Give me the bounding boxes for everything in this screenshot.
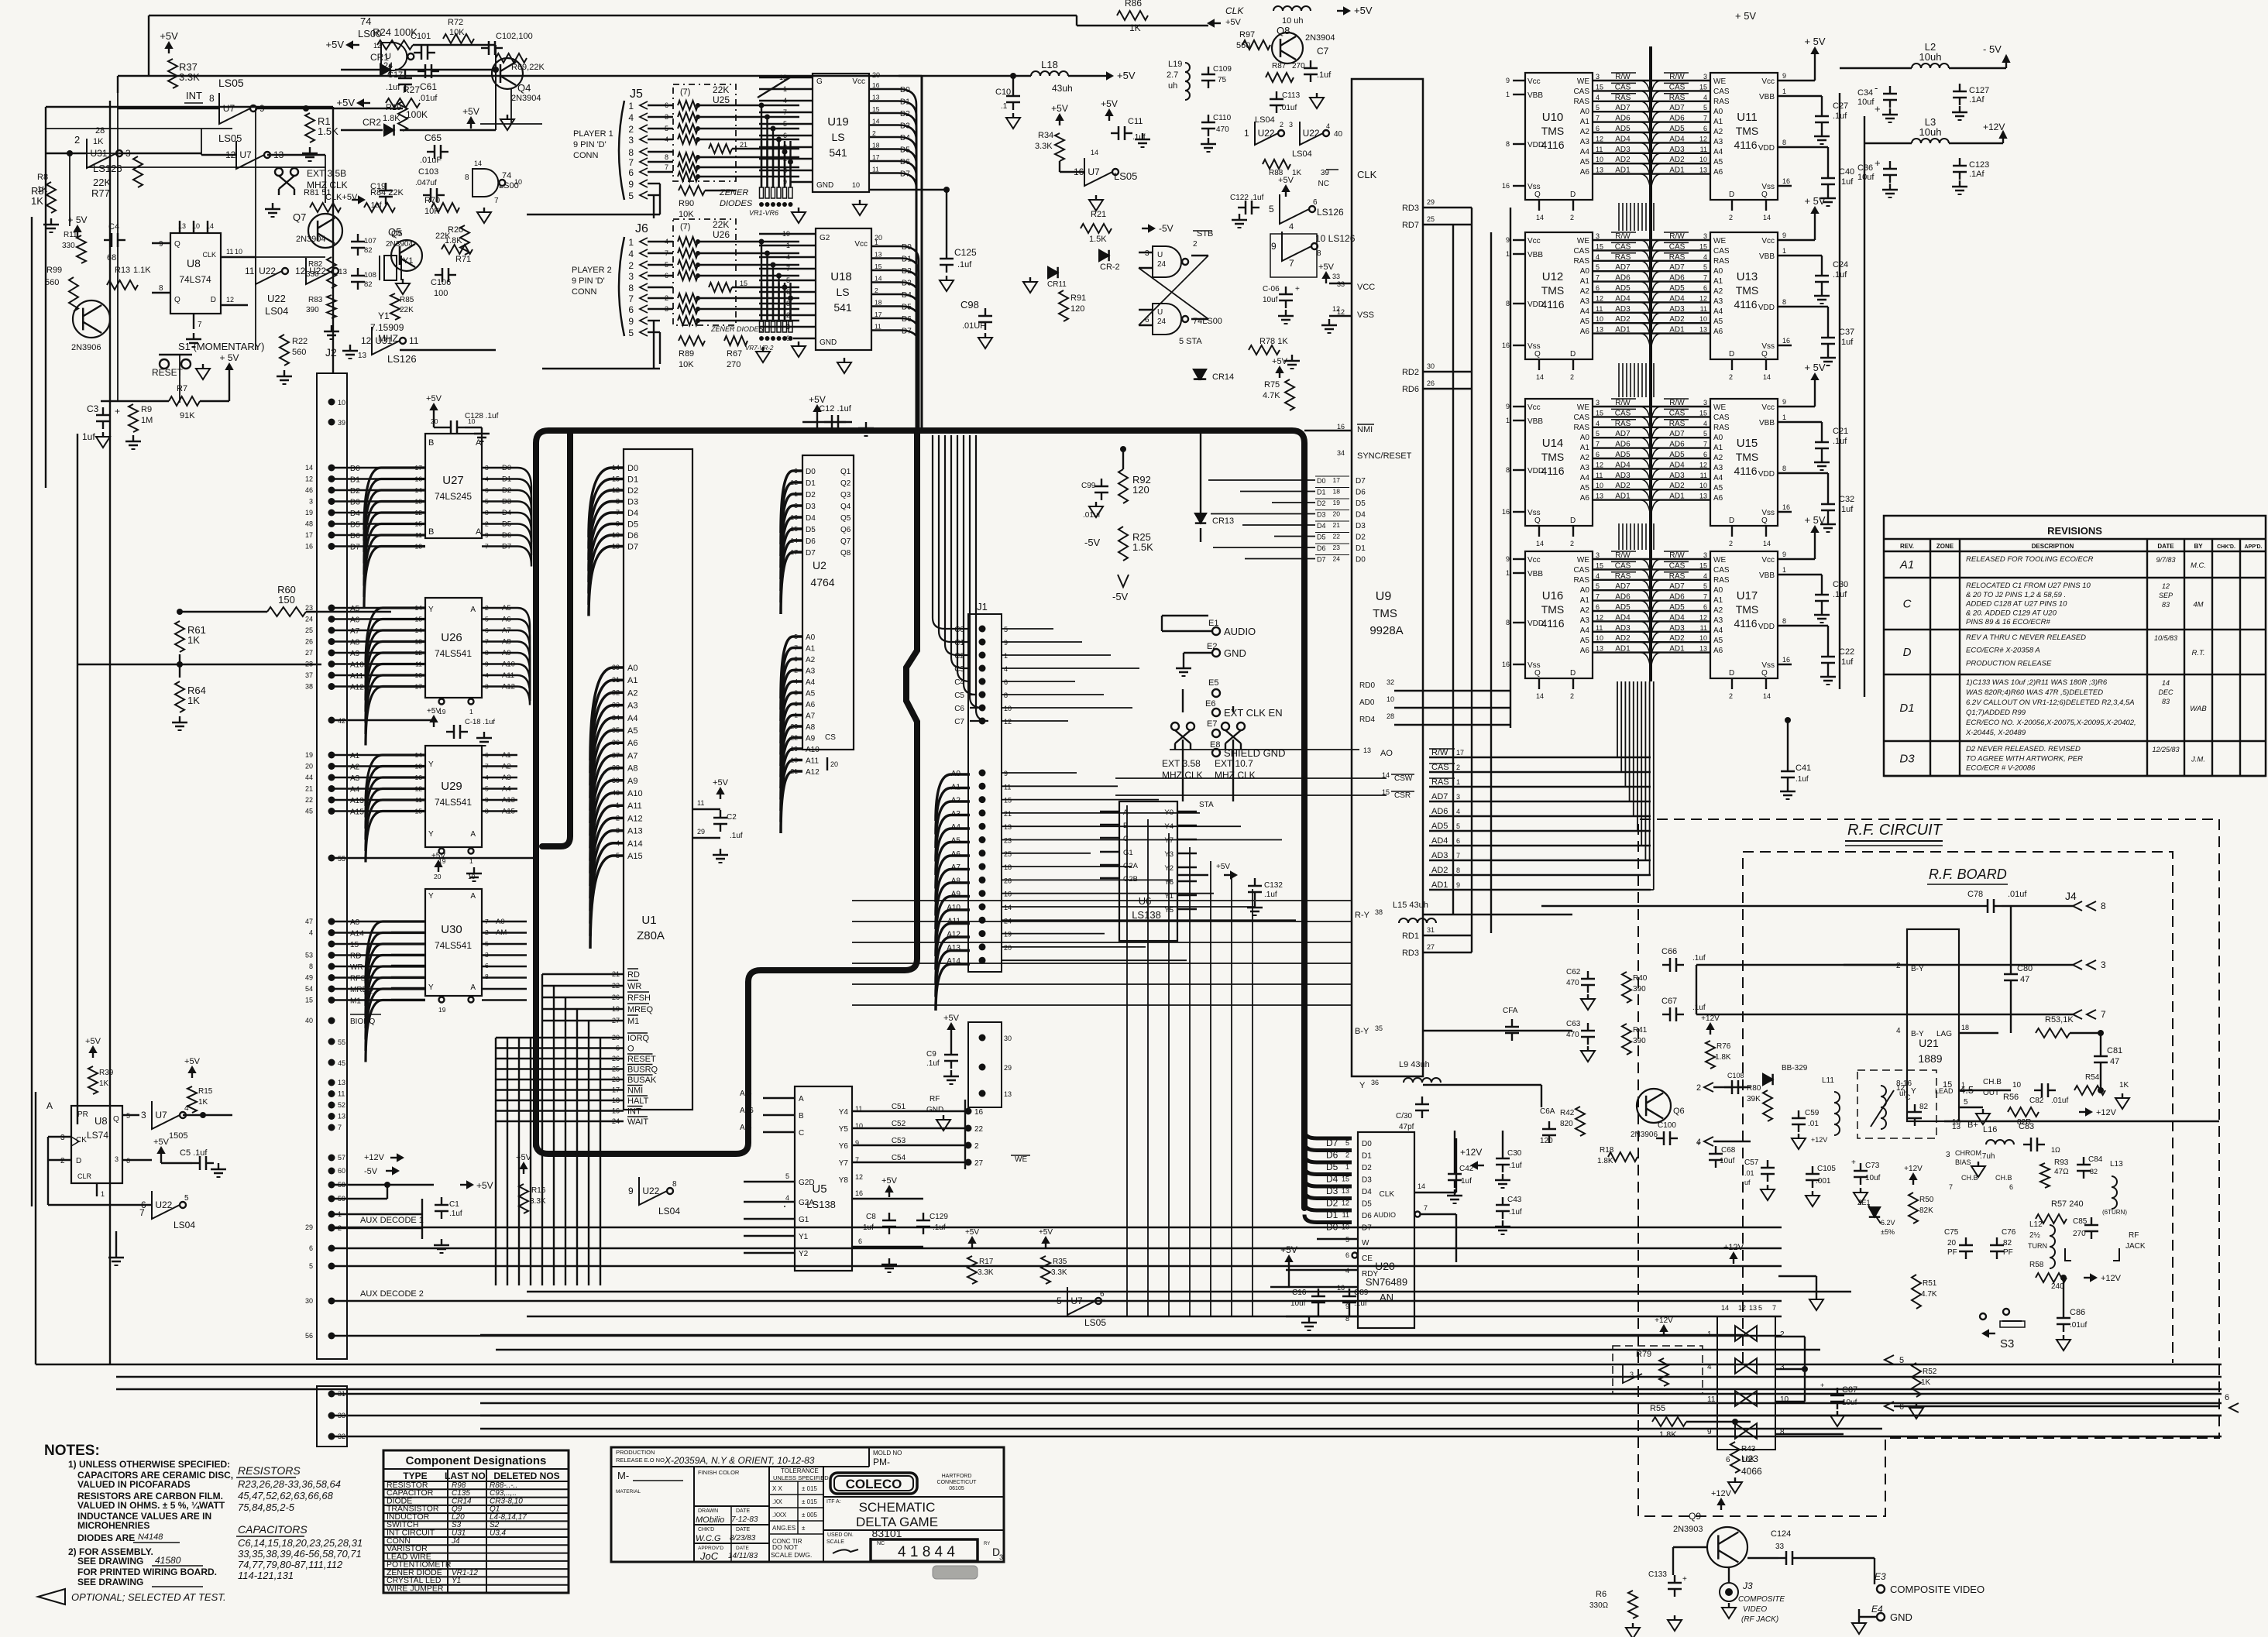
svg-text:C108: C108 [1727, 1072, 1744, 1079]
svg-text:10K: 10K [1741, 1456, 1755, 1464]
svg-text:C67: C67 [1661, 997, 1677, 1006]
svg-text:16: 16 [855, 1189, 863, 1197]
svg-text:56: 56 [305, 1332, 313, 1340]
svg-text:14: 14 [1721, 1304, 1729, 1312]
svg-text:U22: U22 [1258, 128, 1275, 139]
svg-text:13: 13 [358, 352, 367, 360]
svg-text:7: 7 [139, 1207, 145, 1218]
svg-text:14: 14 [1536, 692, 1544, 700]
svg-text:36: 36 [612, 739, 620, 746]
svg-text:14: 14 [872, 118, 880, 125]
svg-text:Q6: Q6 [1673, 1107, 1685, 1116]
svg-text:24: 24 [383, 61, 393, 70]
svg-text:-5V: -5V [1084, 537, 1101, 548]
svg-text:Q5: Q5 [391, 229, 403, 239]
svg-text:R86: R86 [1125, 0, 1142, 9]
svg-text:A1: A1 [627, 676, 637, 685]
svg-text:9: 9 [159, 240, 163, 249]
svg-text:1.5K: 1.5K [1132, 541, 1153, 553]
svg-text:AD3: AD3 [1669, 305, 1685, 314]
svg-text:Y7: Y7 [1164, 836, 1174, 845]
svg-text:120: 120 [1132, 484, 1149, 496]
svg-text:CLK: CLK [1225, 5, 1244, 16]
svg-text:D2: D2 [627, 486, 638, 496]
svg-text:3: 3 [1456, 793, 1460, 801]
svg-text:7: 7 [1596, 115, 1600, 122]
svg-text:LEAD: LEAD [1935, 1087, 1954, 1095]
svg-text:J4: J4 [451, 1537, 460, 1546]
svg-text:AD6: AD6 [1431, 807, 1448, 816]
svg-text:AD5: AD5 [1431, 822, 1448, 831]
svg-text:7: 7 [338, 1124, 342, 1131]
svg-text:Vcc: Vcc [852, 77, 865, 86]
svg-text:150: 150 [278, 594, 295, 606]
svg-text:D4: D4 [1356, 511, 1366, 520]
svg-text:10K: 10K [679, 210, 694, 219]
svg-text:4: 4 [665, 136, 668, 143]
svg-text:+12V: +12V [1904, 1165, 1923, 1173]
svg-text:14: 14 [1763, 692, 1771, 700]
svg-text:A6: A6 [350, 616, 360, 625]
svg-text:330: 330 [62, 242, 75, 250]
svg-text:A1: A1 [502, 751, 511, 760]
svg-text:D1: D1 [350, 476, 360, 485]
svg-text:8: 8 [1506, 140, 1510, 148]
svg-text:D4: D4 [1317, 522, 1326, 530]
svg-text:RD: RD [627, 970, 640, 980]
svg-text:U13: U13 [1737, 270, 1758, 283]
svg-text:RAS: RAS [1669, 572, 1686, 581]
svg-text:390: 390 [306, 306, 319, 314]
svg-text:17: 17 [1333, 476, 1341, 484]
svg-text:C63: C63 [1566, 1020, 1581, 1028]
svg-text:D0: D0 [1356, 556, 1366, 565]
svg-text:1: 1 [1506, 250, 1510, 258]
svg-text:A1: A1 [1713, 444, 1723, 452]
svg-text:.047uf: .047uf [415, 179, 437, 187]
svg-text:CSW: CSW [1394, 774, 1413, 783]
svg-text:AD3: AD3 [1615, 472, 1631, 480]
svg-text:4: 4 [794, 678, 798, 685]
svg-text:13: 13 [1699, 492, 1707, 500]
svg-text:6: 6 [628, 167, 634, 178]
svg-text:-5V: -5V [1112, 591, 1129, 602]
svg-text:AD7: AD7 [1615, 263, 1631, 272]
svg-text:2: 2 [974, 1142, 979, 1151]
svg-text:+ 5V: + 5V [1735, 10, 1756, 22]
svg-text:4: 4 [1703, 253, 1707, 261]
svg-text:A4: A4 [627, 714, 637, 723]
svg-text:AD4: AD4 [1431, 836, 1448, 846]
svg-text:1Ω: 1Ω [2051, 1146, 2060, 1154]
svg-text:C1: C1 [449, 1200, 459, 1209]
svg-text:270: 270 [727, 360, 741, 369]
svg-text:12: 12 [855, 1173, 863, 1181]
svg-text:18: 18 [1961, 1024, 1969, 1031]
svg-text:D: D [211, 296, 216, 304]
svg-text:RAS: RAS [1669, 420, 1686, 428]
svg-text:APP'D.: APP'D. [2244, 544, 2262, 550]
svg-text:45,47,52,62,63,66,68: 45,47,52,62,63,66,68 [238, 1490, 334, 1501]
svg-text:.1uf: .1uf [1839, 505, 1854, 514]
svg-text:D3: D3 [806, 503, 816, 511]
svg-text:+: + [1875, 103, 1881, 115]
svg-text:+5V: +5V [943, 1014, 960, 1023]
svg-text:C-18 .1uf: C-18 .1uf [465, 718, 495, 726]
svg-text:2: 2 [1729, 214, 1733, 221]
svg-text:CR-2: CR-2 [1100, 263, 1120, 272]
svg-text:A9: A9 [627, 777, 637, 786]
svg-text:R8: R8 [37, 173, 48, 182]
svg-text:PINS 89 & 16 ECO/ECR#: PINS 89 & 16 ECO/ECR# [1966, 618, 2050, 626]
svg-text:48: 48 [305, 520, 313, 528]
svg-text:LAST NO.: LAST NO. [445, 1471, 488, 1481]
svg-text:AD4: AD4 [1669, 135, 1685, 143]
svg-text:+12V: +12V [1655, 1316, 1673, 1325]
svg-text:15: 15 [1004, 797, 1012, 805]
svg-text:.1uf: .1uf [1839, 338, 1854, 347]
svg-text:DEC: DEC [2158, 688, 2173, 696]
svg-text:RESISTORS: RESISTORS [238, 1464, 301, 1477]
svg-text:11: 11 [338, 1090, 345, 1098]
svg-text:C5 .1uf: C5 .1uf [180, 1148, 208, 1158]
svg-text:U1: U1 [641, 914, 656, 927]
svg-text:5: 5 [665, 125, 668, 132]
svg-text:MHZ CLK: MHZ CLK [1215, 770, 1256, 781]
svg-text:J2: J2 [325, 346, 337, 359]
svg-text:+5V: +5V [1280, 1244, 1297, 1255]
svg-text:D5: D5 [1317, 534, 1326, 541]
svg-text:D3: D3 [350, 499, 360, 507]
svg-text:A1: A1 [1713, 596, 1723, 605]
svg-text:U7: U7 [1070, 1296, 1083, 1306]
svg-text:U15: U15 [1737, 437, 1758, 450]
svg-text:CLR: CLR [77, 1172, 92, 1180]
svg-text:VR1-VR6: VR1-VR6 [749, 209, 778, 217]
svg-text:D1: D1 [1362, 1152, 1372, 1161]
svg-text:8: 8 [672, 1180, 677, 1189]
svg-text:Y3: Y3 [1164, 850, 1174, 859]
svg-text:C127: C127 [1969, 86, 1989, 95]
svg-text:A15: A15 [502, 808, 515, 816]
svg-text:A3: A3 [1713, 616, 1723, 625]
svg-text:R41: R41 [1633, 1026, 1648, 1035]
svg-text:+12V: +12V [1701, 1014, 1720, 1023]
svg-text:C78: C78 [1967, 890, 1983, 899]
svg-text:4 1 8 4 4: 4 1 8 4 4 [898, 1544, 955, 1560]
svg-text:.1uf: .1uf [1509, 1162, 1522, 1170]
svg-text:.1uf: .1uf [730, 832, 743, 840]
svg-text:GND: GND [816, 181, 833, 190]
svg-text:G: G [816, 77, 823, 86]
svg-text:PLAYER 1: PLAYER 1 [573, 129, 613, 139]
svg-text:C5: C5 [954, 692, 964, 700]
svg-text:RD1: RD1 [1402, 932, 1419, 941]
svg-text:A3: A3 [1580, 464, 1590, 472]
svg-text:C85: C85 [2073, 1217, 2088, 1226]
svg-text:4.7K: 4.7K [1263, 391, 1280, 400]
svg-text:AD3: AD3 [1669, 146, 1685, 154]
svg-text:9: 9 [1782, 398, 1786, 406]
svg-text:36: 36 [1371, 1079, 1379, 1086]
svg-text:10uf: 10uf [1720, 1157, 1735, 1165]
svg-text:Y: Y [1359, 1081, 1366, 1090]
svg-text:AD7: AD7 [1669, 104, 1685, 112]
svg-text:A9: A9 [502, 649, 511, 657]
svg-text:Q: Q [113, 1115, 119, 1124]
svg-text:U30: U30 [441, 923, 462, 936]
svg-text:R52: R52 [1923, 1368, 1937, 1376]
svg-text:CAS: CAS [1669, 409, 1686, 417]
svg-text:13: 13 [1596, 645, 1603, 653]
svg-text:D: D [1570, 516, 1576, 525]
svg-text:(RF JACK): (RF JACK) [1741, 1615, 1778, 1624]
svg-text:D6: D6 [1362, 1212, 1372, 1220]
svg-text:SCALE: SCALE [826, 1539, 844, 1545]
svg-text:4: 4 [1707, 1363, 1712, 1371]
svg-text:J6: J6 [635, 222, 648, 235]
svg-text:6: 6 [1596, 603, 1600, 611]
svg-text:A: A [470, 830, 476, 839]
svg-text:41580: 41580 [155, 1555, 181, 1566]
svg-text:A11: A11 [806, 757, 819, 766]
svg-text:4: 4 [485, 671, 489, 679]
svg-text:LS04: LS04 [265, 305, 288, 317]
svg-text:82: 82 [364, 280, 373, 289]
svg-text:A2: A2 [1580, 454, 1590, 462]
svg-text:Y4: Y4 [1164, 822, 1174, 831]
svg-text:A5: A5 [1713, 484, 1723, 492]
svg-text:14: 14 [305, 464, 313, 472]
svg-text:& 20 TO J2 PINS 1,2 & 58,59 .: & 20 TO J2 PINS 1,2 & 58,59 . [1966, 591, 2066, 599]
svg-text:13: 13 [338, 1113, 345, 1121]
svg-text:PF: PF [2003, 1248, 2013, 1257]
svg-text:AUX DECODE 2: AUX DECODE 2 [360, 1289, 424, 1299]
svg-text:54: 54 [305, 985, 313, 993]
svg-text:R/W: R/W [1669, 551, 1685, 560]
svg-text:7: 7 [1703, 441, 1707, 448]
svg-text:D7: D7 [502, 543, 511, 551]
svg-text:120: 120 [1540, 1137, 1553, 1145]
svg-text:A6: A6 [1713, 494, 1723, 503]
svg-text:E1: E1 [1208, 619, 1218, 628]
svg-text:15: 15 [305, 997, 313, 1004]
svg-text:26: 26 [305, 638, 313, 646]
svg-text:3.3K: 3.3K [530, 1197, 546, 1206]
svg-text:9: 9 [794, 655, 798, 663]
svg-text:R54: R54 [2085, 1073, 2100, 1082]
svg-text:+ 5V: + 5V [219, 352, 239, 363]
svg-text:C6,14,15,18,20,23,25,28,31: C6,14,15,18,20,23,25,28,31 [238, 1537, 363, 1549]
svg-text:1K: 1K [187, 695, 200, 706]
svg-text:13: 13 [338, 268, 348, 276]
svg-text:22K: 22K [713, 84, 729, 95]
svg-text:12: 12 [295, 266, 306, 276]
svg-text:16: 16 [791, 513, 799, 521]
svg-text:R72: R72 [448, 18, 463, 27]
svg-text:2: 2 [1729, 373, 1733, 381]
svg-text:W: W [1362, 1239, 1369, 1247]
svg-text:CLK: CLK [202, 251, 216, 259]
svg-text:75,84,85,2-5: 75,84,85,2-5 [238, 1501, 295, 1513]
svg-text:14: 14 [1763, 214, 1771, 221]
svg-text:± 015: ± 015 [802, 1498, 818, 1505]
svg-text:12: 12 [1738, 1304, 1746, 1312]
svg-text:7: 7 [1949, 1183, 1953, 1191]
svg-text:7: 7 [628, 293, 634, 304]
svg-text:.1Af: .1Af [1969, 95, 1985, 105]
svg-text:A7: A7 [502, 626, 511, 635]
svg-text:Q9: Q9 [1689, 1511, 1701, 1522]
svg-text:1: 1 [1456, 778, 1460, 786]
svg-text:10uf: 10uf [1865, 1174, 1881, 1182]
svg-text:22: 22 [1333, 533, 1341, 541]
svg-text:13: 13 [1596, 492, 1603, 500]
svg-text:R99: R99 [46, 266, 62, 275]
svg-text:8: 8 [1506, 619, 1510, 626]
svg-text:A11: A11 [627, 801, 642, 811]
svg-text:4: 4 [1596, 253, 1600, 261]
svg-text:ZE1: ZE1 [1857, 1199, 1871, 1206]
svg-text:R/W: R/W [1615, 73, 1631, 81]
svg-text:NC: NC [1318, 180, 1329, 188]
svg-text:24: 24 [305, 616, 313, 623]
svg-text:33: 33 [1775, 1543, 1785, 1551]
svg-text:17: 17 [872, 153, 880, 161]
svg-text:REVISIONS: REVISIONS [2047, 525, 2102, 537]
svg-text:+12V: +12V [1723, 1243, 1744, 1252]
svg-text:+5V: +5V [427, 707, 441, 716]
svg-text:TURN: TURN [2028, 1242, 2047, 1250]
svg-text:CAS: CAS [1669, 242, 1686, 251]
svg-text:C62: C62 [1566, 968, 1581, 976]
svg-text:C17: C17 [387, 70, 403, 80]
svg-text:R6: R6 [1596, 1590, 1606, 1599]
svg-text:.01uf: .01uf [418, 94, 438, 103]
svg-text:R53,1K: R53,1K [2045, 1015, 2074, 1024]
svg-text:A8: A8 [806, 723, 816, 732]
svg-text:6: 6 [1703, 125, 1707, 132]
svg-text:1K: 1K [99, 1079, 109, 1088]
svg-text:R75: R75 [1264, 380, 1280, 390]
svg-text:A2: A2 [1580, 128, 1590, 136]
svg-text:VDD: VDD [1527, 467, 1544, 475]
svg-text:D0: D0 [1362, 1140, 1372, 1148]
svg-text:±5%: ±5% [1881, 1228, 1895, 1236]
svg-text:RESET: RESET [152, 367, 184, 378]
svg-text:uf: uf [1744, 1179, 1751, 1186]
svg-text:AD1: AD1 [1669, 326, 1685, 335]
svg-text:541: 541 [833, 301, 852, 314]
svg-text:5: 5 [184, 1194, 189, 1203]
svg-text:1: 1 [1244, 128, 1249, 139]
svg-text:D7: D7 [806, 549, 816, 558]
svg-text:15: 15 [872, 105, 880, 113]
svg-text:Vcc: Vcc [1527, 403, 1541, 412]
svg-text:A0: A0 [1580, 267, 1590, 276]
svg-text:14: 14 [612, 464, 620, 472]
svg-text:R70: R70 [424, 196, 440, 205]
svg-text:13: 13 [875, 251, 882, 259]
svg-text:83: 83 [2162, 601, 2170, 609]
svg-text:14: 14 [1536, 214, 1544, 221]
svg-text:10K: 10K [679, 360, 694, 369]
svg-text:D7: D7 [1326, 1138, 1338, 1148]
svg-text:14: 14 [875, 275, 882, 283]
svg-text:L20: L20 [1286, 0, 1301, 2]
svg-text:7.15909: 7.15909 [370, 322, 404, 333]
svg-text:7: 7 [1596, 274, 1600, 282]
svg-text:8: 8 [2101, 901, 2106, 911]
svg-text:2: 2 [74, 134, 80, 146]
svg-text:26: 26 [1427, 379, 1435, 387]
svg-text:D6: D6 [806, 537, 816, 546]
svg-text:.1Af: .1Af [1969, 170, 1985, 179]
svg-text:D7: D7 [350, 544, 360, 552]
svg-text:+5V: +5V [881, 1176, 898, 1186]
svg-text:A2: A2 [350, 764, 360, 772]
svg-text:15: 15 [1596, 242, 1603, 250]
svg-text:13: 13 [1363, 746, 1371, 754]
svg-text:D2: D2 [1356, 534, 1366, 542]
svg-text:D: D [1729, 350, 1734, 359]
svg-text:EXT CLK EN: EXT CLK EN [1224, 707, 1283, 719]
svg-text:C: C [799, 1129, 804, 1138]
svg-text:30: 30 [1427, 362, 1435, 370]
svg-text:7-12-83: 7-12-83 [731, 1515, 758, 1524]
svg-text:3: 3 [2101, 959, 2106, 970]
svg-text:21: 21 [740, 141, 747, 149]
svg-text:SEE DRAWING: SEE DRAWING [77, 1556, 143, 1567]
svg-text:DESCRIPTION: DESCRIPTION [2032, 543, 2074, 550]
svg-text:10: 10 [1004, 705, 1012, 712]
svg-text:5: 5 [485, 498, 489, 506]
svg-text:31: 31 [612, 676, 620, 684]
svg-text:.01uF: .01uF [420, 156, 442, 165]
svg-text:WIRE JUMPER: WIRE JUMPER [387, 1584, 444, 1594]
svg-text:5: 5 [1269, 204, 1274, 214]
svg-text:5: 5 [1703, 263, 1707, 271]
svg-text:2: 2 [628, 260, 634, 271]
svg-text:A4: A4 [1713, 148, 1723, 156]
svg-text:A: A [1123, 808, 1129, 817]
svg-text:46: 46 [305, 486, 313, 494]
svg-text:NMI: NMI [1357, 425, 1373, 434]
svg-text:7: 7 [1289, 258, 1294, 269]
svg-text:.1uf: .1uf [1317, 70, 1332, 80]
svg-text:1M: 1M [141, 416, 153, 425]
svg-text:4: 4 [1596, 572, 1600, 580]
svg-text:W.C.G: W.C.G [696, 1534, 721, 1543]
svg-text:G2B: G2B [1123, 875, 1138, 884]
svg-text:J3: J3 [1742, 1580, 1753, 1591]
svg-text:A10: A10 [350, 661, 364, 670]
svg-text:74LS541: 74LS541 [435, 648, 472, 659]
svg-text:C106: C106 [431, 278, 451, 287]
svg-text:CE: CE [1362, 1254, 1373, 1263]
svg-text:A15: A15 [350, 808, 364, 817]
svg-text:A7: A7 [627, 751, 637, 760]
svg-text:LS00: LS00 [358, 28, 381, 39]
svg-text:R85: R85 [400, 296, 414, 304]
svg-text:A10: A10 [806, 746, 820, 754]
svg-text:C123: C123 [1969, 160, 1989, 170]
svg-text:R21: R21 [1091, 210, 1106, 219]
svg-text:9: 9 [628, 316, 634, 327]
svg-text:+: + [1851, 1158, 1856, 1167]
svg-text:D: D [1903, 646, 1912, 659]
svg-text:CAPACITORS: CAPACITORS [238, 1523, 308, 1536]
